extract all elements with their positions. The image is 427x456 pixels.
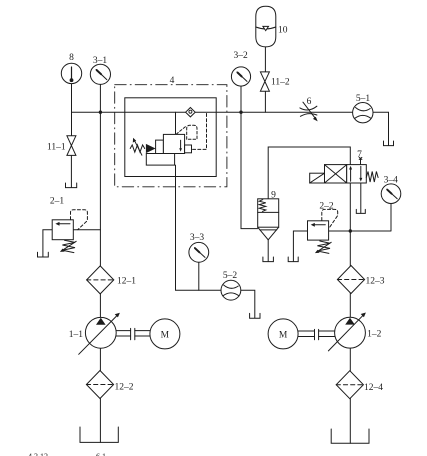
gauge 3-1 (pressure) <box>90 64 110 84</box>
reservoir tank right <box>331 429 369 443</box>
svg-text:1–2: 1–2 <box>367 330 382 340</box>
svg-text:10: 10 <box>278 26 288 36</box>
drain tank under valve 2-2 <box>288 257 298 262</box>
svg-text:M: M <box>161 330 170 340</box>
pump 1-2 (variable displacement) <box>328 313 366 351</box>
wire: main pressure header y=112 with drop to 5-1 drain tank <box>72 112 389 145</box>
flow meter 5-2 <box>221 280 241 300</box>
filter 12-3 <box>337 266 364 294</box>
node B: junction dot header / gauge 3-2 branch <box>239 111 242 114</box>
svg-text:M: M <box>279 330 288 340</box>
relief valve 2-2 spring adjust arrow <box>317 242 331 251</box>
svg-text:12–3: 12–3 <box>366 276 385 286</box>
cartridge relief valve U1 : flow arrow down inside body <box>180 140 182 149</box>
drain tank under valve 7 <box>356 209 365 213</box>
cartridge relief valve U1 : main body box <box>163 134 184 153</box>
cartridge relief valve U1 : right collar box <box>185 145 192 153</box>
wire: relief 2-1 right port to left column <box>73 229 100 231</box>
cartridge relief valve U1 in box 4 : sub-plate <box>146 154 174 166</box>
wire: left pump column (gauge 3-1 stem, 2-1 tap, filter 12-1, pump 1-1, filter 12-2 to tank) <box>99 84 101 442</box>
enclosure box 4 inner solid border <box>125 98 216 177</box>
solenoid valve 7 : solenoid actuator <box>310 173 325 183</box>
sequence valve 9 spring coil <box>259 200 266 212</box>
gauge 3-4 (pressure) <box>381 184 401 204</box>
relief valve 2-2 spring <box>317 241 330 253</box>
svg-text:12–2: 12–2 <box>115 382 134 392</box>
relief valve 2-1 pilot dashed loop <box>71 210 88 230</box>
wire: gauge 3-2 stem continuing down to valve 9 left port <box>241 86 258 229</box>
enclosure box 4 outer chain-dot border <box>115 85 227 187</box>
coupling pump 1-1 to motor M1 <box>116 328 150 339</box>
svg-text:11–2: 11–2 <box>271 78 290 88</box>
pilot line (dashed) from header down to cartridge valve right port <box>192 114 207 150</box>
drain tank under valve 2-1 <box>38 252 49 257</box>
svg-text:6: 6 <box>307 97 312 107</box>
wire: right pump column (junction, filter 12-3, pump 1-2, filter 12-4, tank) <box>349 231 351 443</box>
solenoid valve 7 : port stub with label mark <box>359 157 362 164</box>
solenoid valve 7 : return spring <box>366 172 378 183</box>
svg-text:4: 4 <box>170 76 175 86</box>
wire: flow meter 5-2 outlet to drain tank <box>241 290 255 318</box>
svg-text:5–2: 5–2 <box>223 271 238 281</box>
gauge 8 (thermometer) <box>61 63 81 83</box>
wire: supply drop from header into cartridge valve in box 4 <box>175 112 177 134</box>
svg-text:3–1: 3–1 <box>93 56 108 66</box>
reservoir tank left <box>80 427 118 442</box>
cartridge relief valve U1 : spring <box>130 145 145 152</box>
cartridge relief valve U1 : left collar box <box>156 140 164 153</box>
relief valve 2-2 body <box>308 221 329 240</box>
wire: relief 2-1 left port to drain tank <box>43 230 52 257</box>
coupling motor M2 to pump 1-2 <box>298 329 335 339</box>
relief valve 2-2 pilot dashed loop <box>322 209 338 228</box>
relief valve 2-1 spring adjust arrow <box>62 241 76 250</box>
wire: gauge-8 stem crossing header down to valve 11-1 <box>70 84 72 188</box>
drain tank under valve 9 <box>263 257 274 262</box>
drain tank under flow meter 5-1 <box>384 141 394 146</box>
svg-text:9: 9 <box>271 191 276 201</box>
motor M1 <box>150 319 180 349</box>
svg-text:5–1: 5–1 <box>356 94 371 104</box>
pump 1-1 (variable displacement) <box>79 313 120 355</box>
filter 12-2 <box>86 371 113 399</box>
svg-text:7: 7 <box>357 150 362 160</box>
relief valve 2-1 spring <box>62 240 75 252</box>
svg-text:3–4: 3–4 <box>384 176 399 186</box>
svg-text:3–3: 3–3 <box>190 233 205 243</box>
gauge 3-3 (pressure) <box>189 242 209 262</box>
sequence valve 9 funnel <box>258 227 279 240</box>
cartridge relief valve U1 : poppet cone (solid triangle) <box>146 144 156 153</box>
wire: accumulator branch through valve 11-2 to header <box>264 47 266 112</box>
cartridge relief valve U1 : spring adjust arrow <box>134 140 142 155</box>
filter 12-4 <box>336 371 363 399</box>
shutoff valve 11-2 (bowtie) <box>260 72 269 91</box>
shutoff valve 11-1 (bowtie) <box>67 136 76 156</box>
drain tank under flow meter 5-2 <box>250 313 260 318</box>
solenoid valve 7 : left position box with X <box>325 165 347 183</box>
node A: junction dot header / left column <box>99 111 102 114</box>
sequence valve 9 body <box>258 199 279 227</box>
flow meter 5-1 <box>353 103 373 123</box>
pilot dashed diagonal into cartridge valve top <box>176 126 186 134</box>
svg-text:8: 8 <box>69 53 74 63</box>
svg-text:1–1: 1–1 <box>69 330 84 340</box>
gauge 3-2 (pressure) <box>231 67 250 86</box>
svg-text:3–2: 3–2 <box>233 51 248 61</box>
motor M2 <box>268 319 298 349</box>
pilot head dashed box above cartridge valve <box>187 125 197 139</box>
drain tank under valve 11-1 <box>66 183 77 188</box>
check valve (diamond with ball) on header inside box 4 <box>186 108 196 117</box>
wire: relief 2-2 left port to drain tank <box>293 231 307 261</box>
wire: junction line 2-2 to gauge 3-4 stem <box>329 204 391 232</box>
wire: cartridge valve outlet down then right to flow meter 5-2 <box>176 165 221 290</box>
svg-text:4.3.12: 4.3.12 <box>28 452 48 456</box>
accumulator 10 <box>256 6 276 47</box>
throttle valve 6 <box>300 102 318 121</box>
faint cropped caption remnant at bottom edge <box>28 452 106 456</box>
filter 12-1 <box>87 266 114 294</box>
wire: valve 7 lower-left port down to junction line <box>349 183 351 231</box>
svg-text:12–4: 12–4 <box>364 383 383 393</box>
svg-text:11–1: 11–1 <box>47 143 66 153</box>
wire: valve 7 lower-right port to drain tank <box>360 183 362 213</box>
wire: valve 9 top port up and right into valve 7 upper-left port <box>268 147 350 199</box>
solenoid valve 7 : right position box with flow arrows <box>347 165 367 183</box>
node C: junction dot on 2-2 line / right pump column <box>349 229 352 232</box>
svg-text:6.1: 6.1 <box>96 452 106 456</box>
svg-text:2–1: 2–1 <box>50 197 65 207</box>
relief valve 2-1 body <box>52 220 73 240</box>
wire: gauge 3-3 stem <box>198 262 200 290</box>
svg-text:2–2: 2–2 <box>319 202 334 212</box>
svg-text:12–1: 12–1 <box>117 277 136 287</box>
wire: valve 9 drain to tank <box>267 240 269 262</box>
